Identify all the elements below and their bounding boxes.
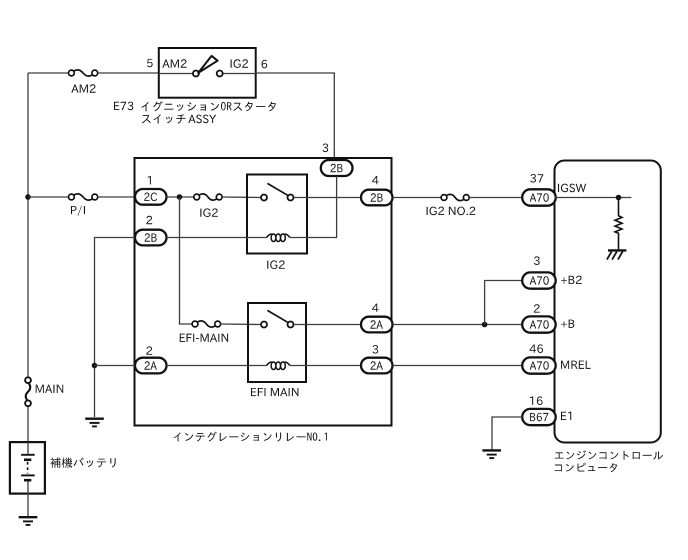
label 2B pin2 bbox=[145, 233, 157, 241]
pin number 4 bbox=[372, 176, 379, 184]
pin number 3 (2A) bbox=[372, 345, 378, 354]
wire fuse P/I to relay pin 1 bbox=[98, 196, 135, 198]
wire switch internal right bbox=[223, 73, 256, 75]
pin number 3 bbox=[322, 143, 328, 152]
wire switch internal left bbox=[159, 73, 193, 75]
node junction +B / +B2 bbox=[482, 322, 488, 328]
wire 2C to fuse IG2 bbox=[167, 196, 194, 198]
wire ground rail junction to 2A pin2 bbox=[95, 365, 136, 367]
fuse P/I bbox=[69, 194, 98, 200]
label A70 pin37 bbox=[530, 193, 549, 202]
label 2A pin4 bbox=[371, 320, 383, 328]
connector 2A (pin 3) bbox=[361, 358, 393, 374]
chassis ground (IGSW resistor) bbox=[607, 250, 627, 259]
label fuse IG2 NO.2 bbox=[427, 207, 476, 216]
label fuse EFI-MAIN bbox=[180, 334, 228, 342]
label IG2 relay bbox=[267, 260, 285, 269]
label ignition OR starter switch (line1) bbox=[141, 101, 276, 111]
relay EFI MAIN contact right bbox=[288, 322, 294, 328]
pin number 37 bbox=[530, 174, 543, 183]
wire 2B pin2 left and down to ground bbox=[95, 238, 136, 418]
relay IG2 coil bbox=[267, 234, 290, 242]
wire pin 4 to fuse IG2 NO.2 bbox=[393, 197, 442, 199]
connector A70 (pin 3 +B2) bbox=[522, 272, 556, 288]
switch contact IG2 bbox=[217, 71, 223, 77]
pin number 2 bbox=[146, 216, 152, 224]
relay EFI MAIN blade bbox=[267, 310, 288, 322]
node IGSW resistor tap bbox=[616, 195, 622, 201]
connector 2A (pin 2) bbox=[135, 358, 167, 374]
label switch assy (line2b) bbox=[188, 115, 216, 124]
label integration relay NO.1 bbox=[174, 432, 327, 442]
fuse AM2 bbox=[69, 70, 98, 76]
wire EFI MAIN contact to pin 4 bbox=[294, 324, 362, 326]
wire 2A pin2 to EFI MAIN coil bbox=[167, 365, 267, 367]
label auxiliary battery bbox=[50, 457, 115, 467]
wire pin 4 2A to ECU +B bbox=[393, 324, 523, 326]
label A70 pin2 bbox=[530, 320, 549, 329]
label B67 pin16 bbox=[530, 413, 548, 422]
wire battery rail below MAIN link bbox=[27, 406, 29, 442]
label engine control computer (line2) bbox=[555, 463, 617, 473]
wire junction to fuse P/I bbox=[28, 196, 69, 198]
wire fuse AM2 to switch pin 5 bbox=[98, 72, 159, 74]
connector 2A (pin 4) bbox=[361, 317, 393, 333]
pin number 4 (2A) bbox=[372, 304, 379, 312]
label MREL bbox=[561, 361, 591, 369]
relay EFI MAIN coil bbox=[267, 362, 290, 370]
wire left battery rail (vertical) bbox=[27, 73, 29, 377]
wire 2B pin2 to IG2 coil left bbox=[167, 237, 267, 239]
battery box bbox=[10, 442, 45, 494]
label +B bbox=[561, 320, 575, 328]
wire pin 3 down to IG2 coil bbox=[290, 176, 337, 238]
relay IG2 contact right bbox=[288, 195, 294, 201]
wire E1 to ground bbox=[492, 417, 522, 449]
label E73 bbox=[114, 102, 133, 111]
pin number 16 bbox=[530, 396, 543, 405]
integration relay NO.1 box bbox=[135, 158, 392, 426]
label 2B pin4 bbox=[371, 193, 383, 201]
label 2C bbox=[144, 193, 157, 202]
connector 2B (pin 3) bbox=[321, 160, 353, 176]
label 2B pin3 bbox=[331, 164, 343, 172]
wire EFI MAIN coil to pin 3 bbox=[290, 365, 361, 367]
label engine control computer (line1) bbox=[555, 450, 663, 459]
relay EFI MAIN contact left bbox=[261, 322, 267, 328]
label MAIN bbox=[36, 385, 64, 393]
fuse IG2 NO.2 bbox=[441, 194, 469, 200]
wire battery rail to fuse AM2 bbox=[28, 72, 69, 74]
pin number 3 (A70) bbox=[534, 256, 540, 265]
label E1 bbox=[561, 412, 571, 420]
ground (battery) bbox=[19, 517, 38, 525]
relay EFI MAIN inner box bbox=[248, 303, 306, 382]
label IG2 inside switch bbox=[231, 59, 249, 68]
pin 5 of ignition switch bbox=[147, 59, 153, 67]
wire battery to ground bbox=[27, 494, 29, 516]
wire fuse EFI-MAIN to relay contact bbox=[221, 323, 261, 326]
connector A70 (pin 37 IGSW) bbox=[522, 189, 556, 205]
pin number 46 bbox=[530, 344, 543, 353]
ground (E1) bbox=[482, 450, 501, 458]
label fuse P/I bbox=[71, 206, 85, 216]
fuse IG2 bbox=[194, 194, 222, 200]
connector A70 (pin 46 MREL) bbox=[522, 357, 556, 373]
label A70 pin46 bbox=[530, 361, 549, 370]
connector 2C (pin 1) bbox=[135, 189, 167, 205]
node junction battery rail / P-I bbox=[25, 194, 31, 200]
wire pin 3 2A to ECU MREL bbox=[393, 365, 523, 367]
node junction ground rail / 2A pin2 bbox=[92, 363, 98, 369]
label A70 pin3 bbox=[530, 276, 549, 285]
label fuse AM2 bbox=[71, 84, 95, 92]
label fuse IG2 bbox=[200, 208, 218, 217]
connector 2B (pin 4) bbox=[361, 190, 393, 206]
pin number 2 (2A) bbox=[146, 346, 152, 354]
label 2A pin2 bbox=[145, 361, 157, 369]
ground (relay coil rail) bbox=[85, 419, 104, 427]
connector 2B (pin 2) bbox=[135, 230, 167, 246]
wire fuse IG2 to relay contact bbox=[222, 196, 261, 199]
label AM2 inside switch bbox=[162, 59, 186, 67]
label IGSW bbox=[558, 184, 586, 193]
label EFI MAIN relay bbox=[251, 388, 298, 396]
relay IG2 blade bbox=[267, 183, 288, 195]
relay IG2 contact left bbox=[261, 195, 267, 201]
wire junction up to ECU +B2 bbox=[485, 281, 523, 325]
switch contact AM2 bbox=[193, 71, 199, 77]
connector A70 (pin 2 +B) bbox=[522, 316, 556, 332]
node junction after 2C bbox=[177, 194, 183, 200]
fuse EFI-MAIN bbox=[192, 321, 221, 327]
connector B67 (pin 16 E1) bbox=[522, 409, 556, 425]
label switch assy (line2a) bbox=[142, 114, 186, 123]
switch lever blade bbox=[198, 56, 217, 73]
label 2A pin3 bbox=[371, 361, 383, 369]
wire IG2 contact to pin 4 bbox=[294, 197, 362, 199]
resistor (IGSW pull-down) bbox=[615, 198, 622, 250]
pin 6 of ignition switch bbox=[262, 60, 268, 69]
fusible link MAIN bbox=[25, 377, 31, 406]
label +B2 bbox=[561, 276, 582, 284]
wire junction down to fuse EFI-MAIN bbox=[180, 197, 193, 324]
wire fuse IG2 NO.2 to ECU pin 37 bbox=[469, 197, 522, 199]
battery cells symbol bbox=[21, 442, 35, 494]
relay IG2 inner box bbox=[247, 175, 307, 254]
engine control computer box bbox=[555, 161, 661, 443]
pin number 2 (A70) bbox=[534, 304, 540, 312]
pin number 1 bbox=[148, 176, 151, 184]
wire IGSW internal bbox=[555, 197, 632, 199]
wire switch pin 6 to relay pin 3 bbox=[256, 73, 335, 160]
ignition switch E73 box bbox=[159, 48, 256, 98]
